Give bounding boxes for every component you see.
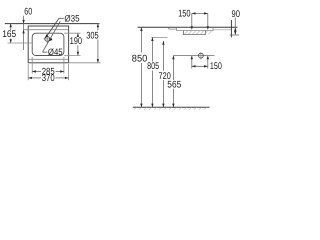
svg-text:305: 305 [86,31,99,42]
floor hatching [134,107,207,110]
dim 370 left arrow [28,77,32,79]
dim 370 extension right [68,64,70,80]
dim 565 down arrow [172,104,174,108]
dim 150 lower left arrow [192,65,196,67]
trap outlet vertical centerline [200,52,202,59]
svg-text:190: 190 [70,36,83,47]
svg-text:90: 90 [232,9,241,20]
basin sump section [184,31,206,35]
basin rear deck line [23,29,68,31]
drain extension line [207,13,209,27]
dim 720 up arrow [162,41,164,45]
basin rim line (side view) [138,26,238,28]
dim 190 up arrow [77,33,79,37]
svg-text:370: 370 [42,73,55,84]
svg-text:150: 150 [178,9,191,20]
leader O45 arrowhead [49,38,53,42]
dim 90 up arrow [234,28,236,32]
floor line [133,106,210,108]
dim 720 down arrow [162,104,164,108]
leader O45 upper segment [43,21,61,52]
dim 190 extension bottom [64,55,81,57]
dim 285 right arrow [60,70,64,72]
dim 370 right arrow [65,77,69,79]
dim 305 line [97,24,99,31]
dim 150 lower line [192,65,208,67]
dim 165 down arrow [10,39,12,43]
basin under-rim channel [177,27,214,30]
wall line (side view) [230,20,232,37]
dim 805 up arrow [151,37,153,41]
dim 60 up arrow below deck line [22,30,24,34]
dim 370 extension left [27,64,29,80]
dim 285 extension right [63,57,65,74]
bowl rounded rect [32,33,64,55]
leader O35 [59,17,64,19]
svg-text:850: 850 [132,53,148,64]
dim 90 line [234,18,236,35]
dim 720 line [162,41,164,71]
dim 565 up arrow [172,56,174,60]
drain center line [173,55,214,57]
wall line (left view) [5,23,100,25]
tap hole extension line [191,13,193,27]
dim 150 lower right arrow [204,65,208,67]
svg-text:60: 60 [24,6,32,17]
svg-text:805: 805 [147,61,159,72]
dim 190 extension top [64,32,81,34]
drilling extension right up-arrow [207,56,209,60]
dim 805 line [151,37,153,61]
drilling extension left [191,56,193,69]
dim 305 down arrow [97,59,99,63]
dim 850 line [140,27,142,52]
dim 805 down arrow [151,104,153,108]
tap hole position arrow [191,26,193,30]
dim 805 extension line [151,36,167,38]
basin front inner line [29,58,68,60]
dim 165 line lower [10,39,12,44]
svg-text:565: 565 [167,79,181,90]
basin rear deck line [213,29,231,31]
dim 370 line [28,77,41,79]
svg-text:Ø35: Ø35 [64,14,79,24]
basin left apron line [168,27,170,29]
dim 165 extension line [8,42,33,44]
dim 150 top left arrow [192,12,196,14]
tap hole vertical centerline [46,34,48,44]
drilling extension left up-arrow [191,56,193,60]
basin left underside stub [169,28,177,30]
dim 285 left arrow [32,70,36,72]
svg-text:Ø45: Ø45 [48,47,63,57]
dim 60 arrow [22,20,24,24]
wall ledge line [230,34,239,36]
drain position arrow [207,26,209,30]
dim 285 line [32,71,41,73]
leader O35 arrowhead [45,34,48,38]
trap outlet circle [199,53,204,58]
dim 850 down arrow [140,104,142,108]
tap hole horizontal centerline [43,38,51,40]
dim 165 up arrow [10,24,12,28]
dim 305 up arrow [97,24,99,28]
svg-text:165: 165 [2,29,16,40]
dim 305 extension bottom [69,62,101,64]
drilling extension right [207,56,209,69]
svg-text:150: 150 [210,61,222,72]
dim 190 down arrow [77,52,79,56]
dim 150 top right arrow [204,12,208,14]
dim 190 line [77,33,79,36]
dim 60 line [23,16,25,50]
dim 90 down arrow [234,31,236,35]
dim 850 up arrow [140,27,142,31]
dim 165 line upper [10,24,12,31]
basin outer rect [28,26,68,63]
dim 565 line [172,56,174,80]
dim 150 top line [192,12,208,14]
leader O45 lower segment [42,51,47,53]
dim 285 extension left [31,57,33,74]
tap hole circle [45,37,50,42]
basin sump hatch [185,31,212,34]
